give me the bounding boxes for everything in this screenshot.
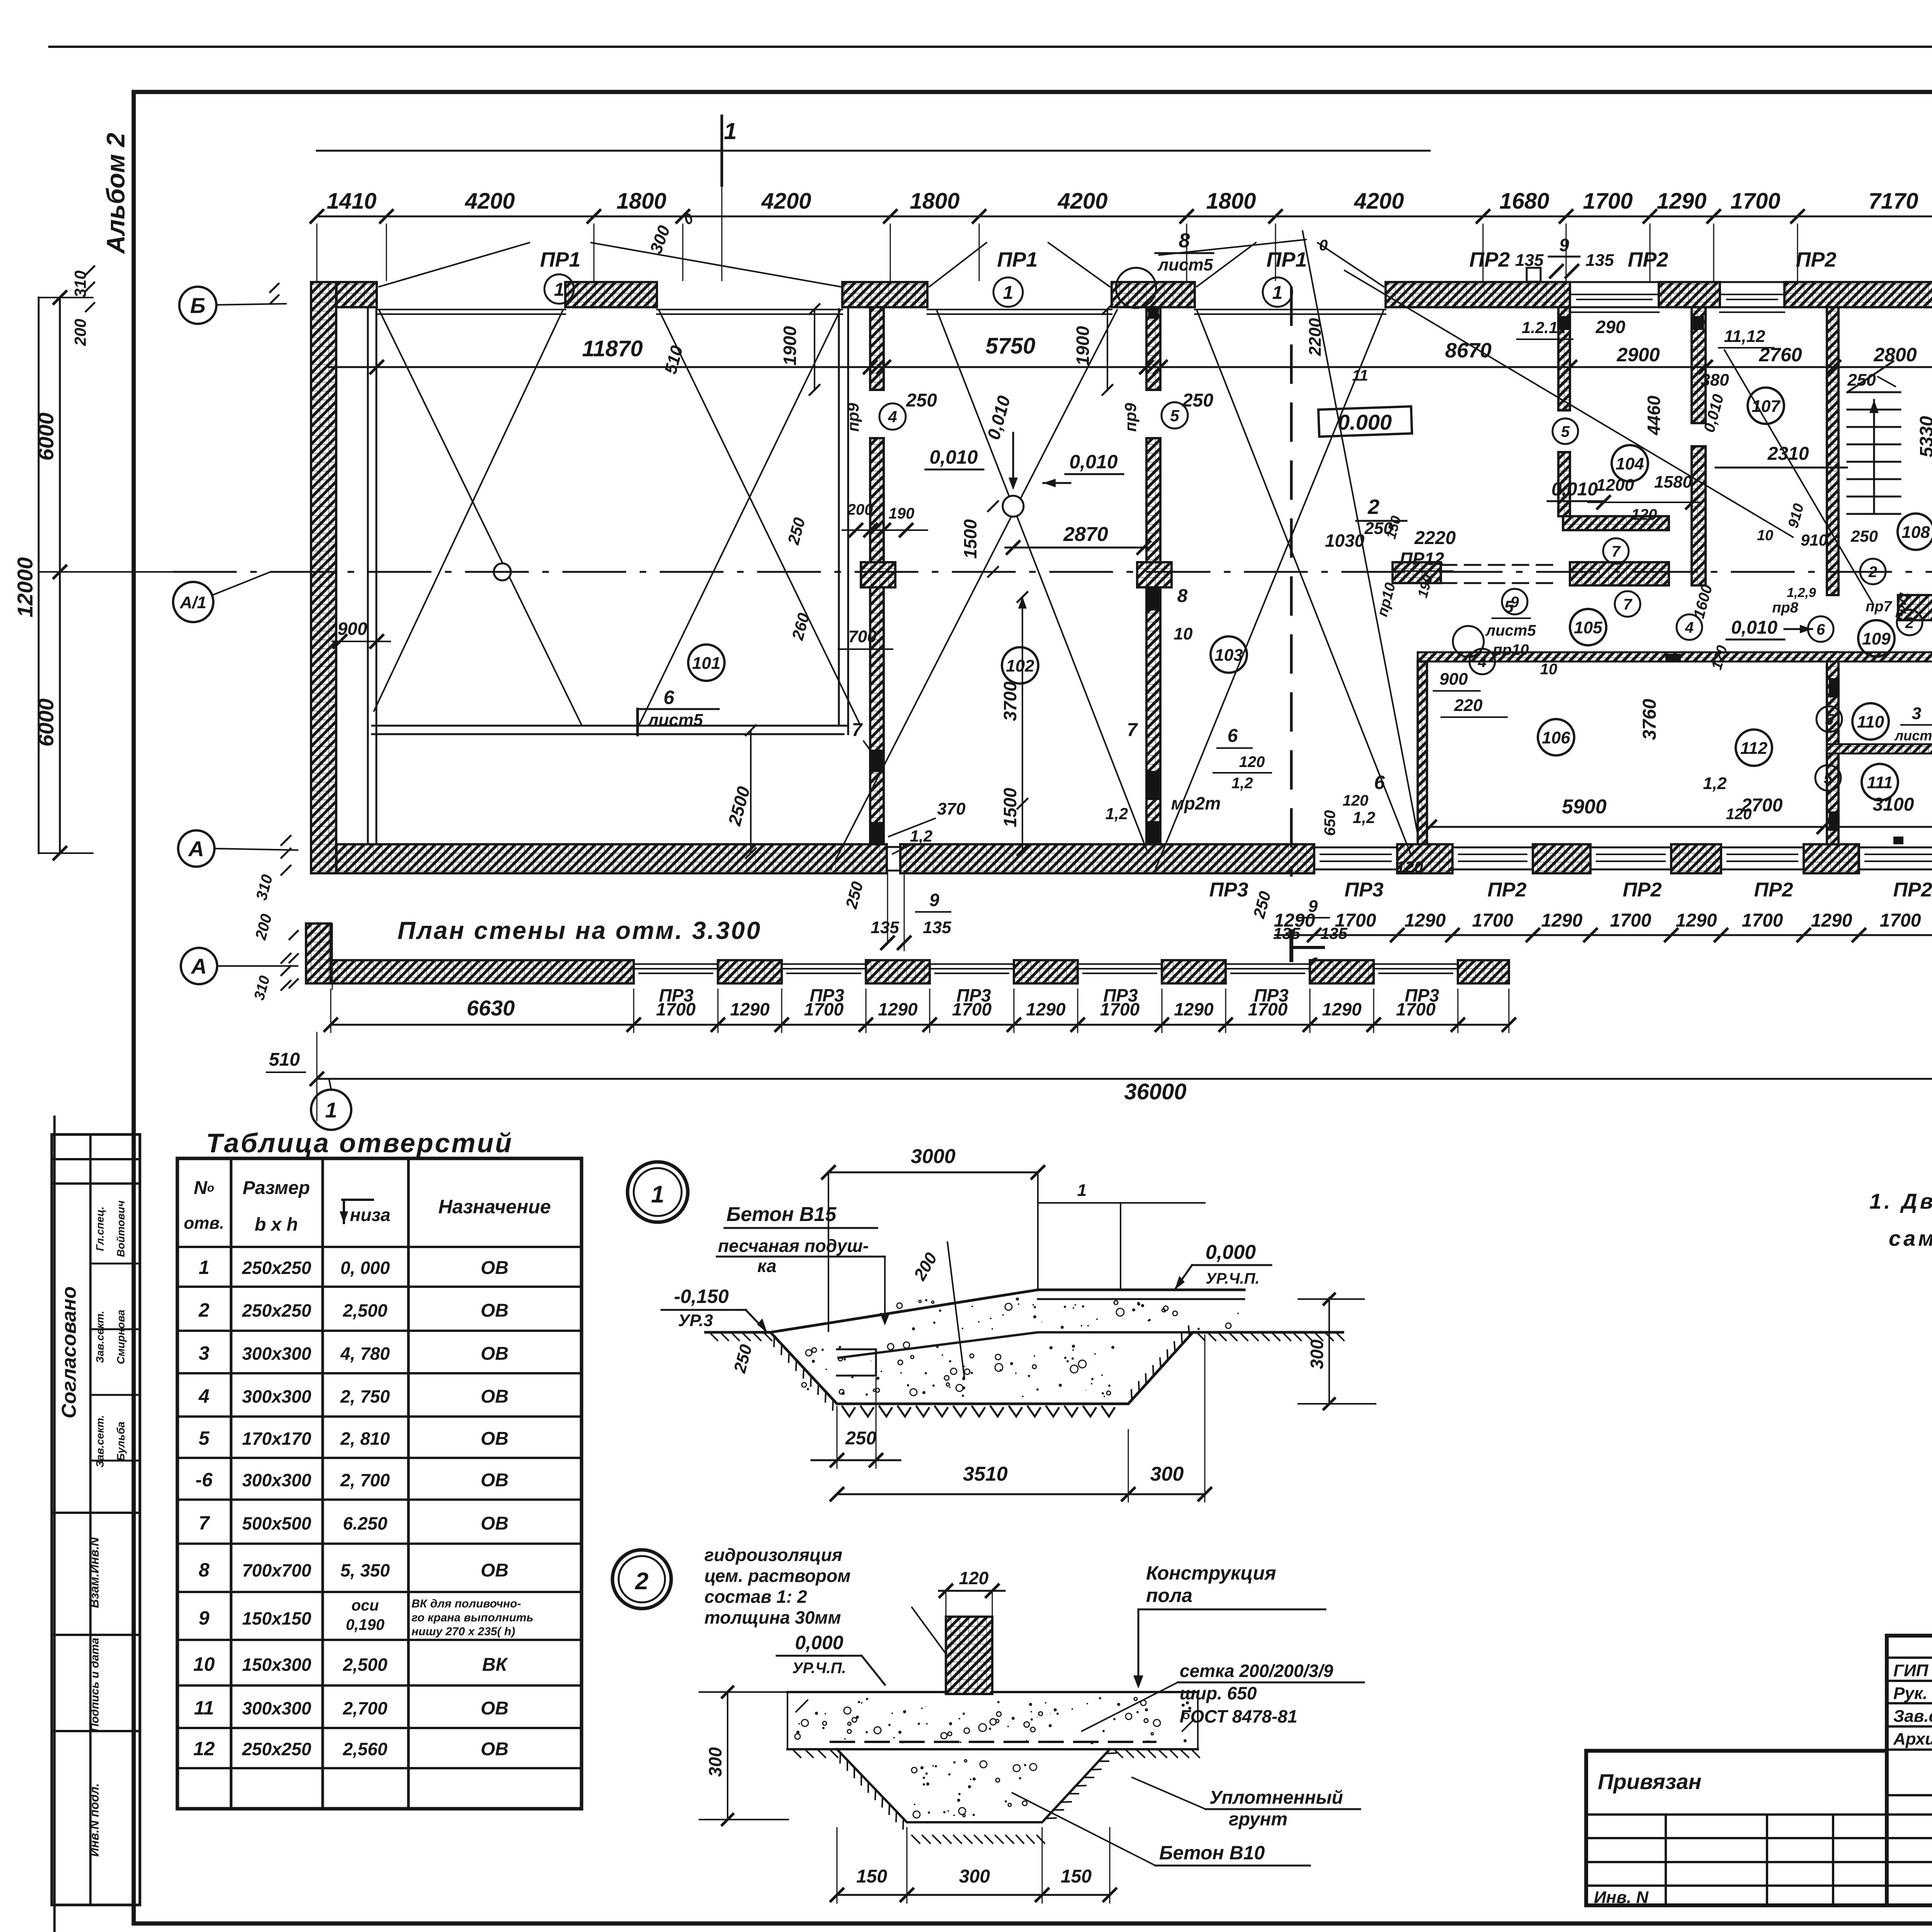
svg-text:6: 6: [1228, 726, 1238, 746]
svg-text:1: 1: [1272, 282, 1283, 303]
interior walls: [870, 307, 884, 390]
svg-text:12: 12: [193, 1738, 215, 1760]
svg-text:4, 780: 4, 780: [340, 1344, 390, 1364]
stairs: [1847, 391, 1900, 393]
svg-text:3700: 3700: [1000, 681, 1020, 721]
svg-text:36000: 36000: [1124, 1079, 1186, 1104]
svg-text:1580: 1580: [1654, 473, 1692, 492]
svg-text:1: 1: [651, 1181, 664, 1208]
svg-text:2: 2: [1868, 563, 1877, 580]
svg-text:пола: пола: [1146, 1585, 1192, 1606]
svg-text:1,2: 1,2: [1703, 774, 1727, 793]
svg-text:1290: 1290: [1811, 910, 1852, 931]
svg-text:ПР2: ПР2: [1469, 248, 1510, 271]
detail 1 circle: [628, 1162, 688, 1222]
detail 2 mesh dashed line: [831, 1741, 1155, 1743]
svg-text:Назначение: Назначение: [438, 1196, 551, 1218]
svg-text:2310: 2310: [1767, 444, 1809, 464]
svg-text:1800: 1800: [616, 189, 666, 214]
svg-text:ПР2: ПР2: [1754, 879, 1793, 901]
svg-text:250x250: 250x250: [241, 1301, 311, 1321]
svg-text:-0,150: -0,150: [674, 1286, 729, 1307]
svg-text:0,190: 0,190: [346, 1616, 384, 1633]
svg-text:9: 9: [199, 1607, 209, 1629]
svg-text:1410: 1410: [327, 189, 376, 214]
svg-text:5, 350: 5, 350: [340, 1560, 390, 1580]
svg-text:1200: 1200: [1596, 476, 1634, 495]
svg-text:сетка 200/200/3/9: сетка 200/200/3/9: [1180, 1661, 1333, 1681]
gate swing diagonals opening4: [1197, 310, 1410, 853]
svg-text:0,000: 0,000: [795, 1632, 843, 1653]
svg-text:11: 11: [194, 1697, 214, 1719]
sheet outer border: [49, 46, 1932, 48]
svg-text:пр10: пр10: [1493, 641, 1529, 658]
svg-text:ОВ: ОВ: [481, 1429, 509, 1449]
svg-text:510: 510: [269, 1049, 300, 1070]
pit bottom zigzag: [842, 1406, 1114, 1417]
svg-text:ОВ: ОВ: [481, 1560, 509, 1581]
svg-text:Бульба: Бульба: [115, 1422, 127, 1461]
svg-text:0, 000: 0, 000: [340, 1258, 390, 1278]
svg-text:290: 290: [1595, 317, 1626, 337]
detail 2 bottom dims: [837, 1894, 1110, 1896]
left signature strip: [52, 1134, 140, 1905]
svg-text:b x h: b x h: [255, 1214, 298, 1235]
svg-text:1700: 1700: [1610, 910, 1651, 931]
svg-text:ВК: ВК: [482, 1655, 509, 1675]
svg-text:2, 750: 2, 750: [340, 1386, 390, 1406]
svg-text:6: 6: [663, 687, 675, 708]
svg-text:8: 8: [1179, 230, 1190, 252]
svg-text:6630: 6630: [467, 996, 515, 1020]
svg-text:120: 120: [959, 1568, 989, 1588]
svg-text:110: 110: [1857, 713, 1884, 731]
svg-text:700: 700: [848, 627, 877, 646]
svg-text:300: 300: [1307, 1339, 1327, 1369]
svg-text:200: 200: [847, 501, 873, 518]
svg-text:3: 3: [1912, 704, 1921, 723]
svg-text:грунт: грунт: [1229, 1809, 1287, 1830]
svg-text:101: 101: [692, 654, 720, 673]
svg-text:104: 104: [1616, 454, 1644, 473]
svg-text:Войтович: Войтович: [115, 1201, 127, 1257]
svg-text:1290: 1290: [1174, 999, 1214, 1019]
svg-text:5900: 5900: [1562, 796, 1607, 818]
svg-text:2, 810: 2, 810: [340, 1429, 390, 1449]
svg-text:нишу 270 х 235( h): нишу 270 х 235( h): [412, 1625, 515, 1638]
svg-text:10: 10: [193, 1653, 215, 1675]
svg-text:пр7: пр7: [1866, 599, 1892, 615]
0.000 boxed level mark: [1318, 406, 1412, 437]
svg-text:-6: -6: [196, 1469, 213, 1490]
svg-text:1.2.11: 1.2.11: [1522, 318, 1566, 337]
svg-text:1: 1: [199, 1257, 209, 1278]
leader diagonals right part: [1303, 231, 1418, 834]
svg-text:1290: 1290: [1026, 999, 1066, 1019]
detail 1 pit shape: [706, 1332, 1343, 1404]
svg-text:1: 1: [724, 118, 736, 144]
svg-text:ОВ: ОВ: [481, 1344, 509, 1364]
svg-text:300: 300: [1150, 1463, 1184, 1485]
svg-text:3000: 3000: [911, 1145, 956, 1168]
svg-text:2: 2: [635, 1568, 648, 1595]
svg-text:120: 120: [1343, 792, 1369, 809]
svg-text:Архит.: Архит.: [1893, 1730, 1932, 1748]
svg-text:2, 700: 2, 700: [340, 1470, 390, 1490]
svg-text:1290: 1290: [878, 999, 918, 1019]
svg-text:ОВ: ОВ: [481, 1514, 509, 1534]
svg-text:250: 250: [845, 1428, 876, 1449]
svg-text:2,500: 2,500: [342, 1655, 388, 1675]
svg-text:120: 120: [1239, 753, 1265, 770]
svg-text:Бетон В15: Бетон В15: [726, 1203, 837, 1226]
svg-text:ПР1: ПР1: [540, 248, 581, 271]
svg-text:8: 8: [199, 1559, 209, 1581]
svg-text:10: 10: [1540, 661, 1558, 678]
svg-text:ОВ: ОВ: [481, 1698, 509, 1719]
svg-text:ПР2: ПР2: [1487, 879, 1526, 901]
svg-text:песчаная подуш-: песчаная подуш-: [718, 1236, 869, 1256]
svg-text:оси: оси: [351, 1597, 379, 1614]
svg-text:ПР12: ПР12: [1400, 549, 1444, 569]
svg-text:Согласовано: Согласовано: [58, 1286, 80, 1418]
svg-text:1680: 1680: [1499, 189, 1549, 214]
top dim row: section line 1: [317, 150, 1430, 152]
svg-text:ПР2: ПР2: [1622, 879, 1662, 901]
svg-text:250: 250: [1847, 371, 1876, 389]
svg-text:УР.3: УР.3: [678, 1311, 713, 1330]
svg-text:170x170: 170x170: [242, 1429, 311, 1449]
top wall window/gate sills: [377, 309, 565, 310]
svg-text:0.000: 0.000: [1338, 410, 1392, 434]
svg-text:ПР1: ПР1: [997, 248, 1038, 271]
svg-text:А: А: [190, 954, 207, 978]
svg-text:150x150: 150x150: [242, 1608, 311, 1628]
svg-text:1290: 1290: [1274, 910, 1315, 931]
svg-text:107: 107: [1752, 397, 1781, 416]
svg-text:5: 5: [1170, 406, 1179, 425]
svg-text:2870: 2870: [1063, 523, 1108, 546]
svg-text:7: 7: [1623, 596, 1633, 613]
svg-text:190: 190: [889, 505, 915, 522]
svg-text:103: 103: [1214, 646, 1243, 665]
svg-text:135: 135: [1585, 251, 1614, 270]
svg-text:1290: 1290: [1541, 910, 1583, 931]
svg-text:1,2: 1,2: [1105, 804, 1128, 823]
svg-text:0,010: 0,010: [1731, 617, 1777, 638]
svg-text:11,12: 11,12: [1724, 327, 1765, 346]
svg-text:Конструкция: Конструкция: [1146, 1562, 1276, 1584]
svg-text:Смирнова: Смирнова: [115, 1310, 127, 1364]
svg-text:5: 5: [1825, 711, 1834, 728]
svg-text:Зав.сек.: Зав.сек.: [1893, 1707, 1932, 1726]
svg-text:4: 4: [888, 408, 897, 426]
svg-text:1700: 1700: [804, 999, 844, 1019]
svg-text:УР.Ч.П.: УР.Ч.П.: [792, 1660, 846, 1677]
svg-text:8: 8: [1177, 586, 1188, 606]
svg-text:1900: 1900: [780, 326, 800, 366]
strip plan walls: [306, 923, 331, 983]
svg-text:250: 250: [1850, 527, 1878, 545]
svg-text:ПР2: ПР2: [1796, 248, 1837, 271]
svg-text:Уплотненный: Уплотненный: [1209, 1787, 1343, 1808]
svg-text:Таблица отверстий: Таблица отверстий: [206, 1128, 513, 1158]
svg-text:1,2: 1,2: [1231, 775, 1253, 792]
svg-text:1290: 1290: [1405, 910, 1446, 931]
detail 2 slab: [787, 1691, 946, 1693]
svg-text:300x300: 300x300: [242, 1470, 311, 1490]
svg-text:гидроизоляция: гидроизоляция: [704, 1545, 842, 1565]
svg-text:УР.Ч.П.: УР.Ч.П.: [1206, 1270, 1259, 1287]
svg-text:3760: 3760: [1639, 699, 1660, 740]
svg-text:ПР2: ПР2: [1893, 879, 1932, 901]
left vertical dims: [59, 298, 61, 853]
svg-text:135: 135: [871, 918, 899, 937]
svg-text:1290: 1290: [1656, 189, 1706, 214]
bottom window dim row: [1275, 934, 1932, 936]
svg-text:ГОСТ 8478-81: ГОСТ 8478-81: [1180, 1706, 1298, 1726]
interior long dim line: [329, 366, 1932, 368]
svg-text:300x300: 300x300: [242, 1344, 311, 1364]
svg-text:1700: 1700: [656, 999, 696, 1019]
svg-text:лист5: лист5: [1485, 622, 1536, 639]
plan: top wall piers (hatched): [311, 282, 377, 307]
detail 2 pit below: [837, 1749, 1110, 1822]
svg-text:ПР3: ПР3: [1344, 879, 1383, 901]
svg-text:500x500: 500x500: [242, 1514, 311, 1534]
svg-text:А: А: [188, 837, 204, 861]
svg-text:9: 9: [1559, 235, 1569, 255]
section mark 1 bottom: [1289, 931, 1293, 960]
svg-text:108: 108: [1901, 523, 1930, 542]
svg-text:Зав.сект.: Зав.сект.: [94, 1311, 106, 1363]
svg-text:ОВ: ОВ: [481, 1739, 509, 1760]
svg-text:300x300: 300x300: [242, 1386, 311, 1406]
svg-text:4200: 4200: [1057, 189, 1107, 214]
svg-text:Подпись и дата: Подпись и дата: [88, 1638, 101, 1731]
svg-text:102: 102: [1006, 656, 1034, 675]
svg-text:3100: 3100: [1873, 794, 1914, 815]
svg-text:1: 1: [554, 279, 565, 300]
svg-text:ВК для поливочно-: ВК для поливочно-: [412, 1597, 521, 1610]
svg-text:ПР2: ПР2: [1628, 248, 1668, 271]
svg-text:4200: 4200: [761, 189, 811, 214]
svg-text:200: 200: [71, 319, 89, 346]
svg-text:5: 5: [1561, 423, 1570, 440]
plan: left wall (outer leaf + inner leaf): [311, 282, 336, 873]
svg-text:300: 300: [959, 1866, 990, 1887]
svg-text:лист5: лист5: [1894, 728, 1932, 743]
strip dim row: [331, 1024, 1509, 1026]
svg-text:150: 150: [1061, 1866, 1092, 1887]
svg-text:1290: 1290: [1322, 999, 1362, 1019]
svg-text:ОВ: ОВ: [481, 1386, 509, 1407]
svg-text:1900: 1900: [1073, 326, 1093, 366]
room 101 inner lining: [372, 725, 848, 727]
svg-text:2,700: 2,700: [342, 1698, 388, 1718]
svg-text:ПР1: ПР1: [1267, 248, 1307, 271]
room number circles: [688, 645, 724, 681]
plan: bottom wall: [311, 844, 887, 873]
svg-text:самозакрывания уплотнить в: самозакрывания уплотнить в притворах.: [1889, 1226, 1932, 1250]
svg-text:1,2: 1,2: [1353, 808, 1375, 827]
svg-text:ОВ: ОВ: [481, 1301, 509, 1321]
svg-text:Взам.Инв.N: Взам.Инв.N: [87, 1537, 101, 1608]
svg-text:1700: 1700: [1248, 999, 1288, 1019]
svg-text:4200: 4200: [1354, 189, 1404, 214]
svg-text:1030: 1030: [1325, 531, 1365, 551]
svg-text:1700: 1700: [1730, 189, 1780, 214]
svg-text:0,010: 0,010: [1551, 479, 1598, 500]
svg-text:150x300: 150x300: [242, 1655, 311, 1675]
svg-text:Рук. бр.: Рук. бр.: [1893, 1684, 1932, 1703]
svg-text:4: 4: [1685, 619, 1694, 636]
svg-text:2: 2: [1367, 495, 1379, 519]
svg-text:12000: 12000: [13, 557, 37, 617]
svg-text:ГИП: ГИП: [1893, 1661, 1929, 1680]
svg-text:120: 120: [1726, 806, 1752, 823]
svg-text:5: 5: [1824, 770, 1833, 787]
svg-text:Зав.сект.: Зав.сект.: [94, 1415, 106, 1468]
svg-text:пр9: пр9: [844, 403, 862, 432]
svg-text:Размер: Размер: [243, 1178, 310, 1198]
svg-text:1: 1: [1077, 1181, 1087, 1200]
svg-text:10: 10: [1174, 624, 1193, 643]
svg-text:150: 150: [856, 1866, 887, 1887]
svg-text:1. Двери лестничной клетки: 1. Двери лестничной клетки оборудовать п…: [1869, 1189, 1932, 1213]
svg-text:1290: 1290: [730, 999, 770, 1019]
svg-text:135: 135: [1515, 251, 1544, 270]
svg-text:6.250: 6.250: [343, 1514, 388, 1534]
svg-text:4460: 4460: [1644, 395, 1664, 435]
svg-text:мр2т: мр2т: [1171, 793, 1221, 813]
svg-text:ПР3: ПР3: [1209, 879, 1248, 901]
svg-text:отв.: отв.: [184, 1214, 224, 1233]
svg-text:ОВ: ОВ: [481, 1470, 509, 1490]
main dim chain: [317, 216, 1932, 218]
svg-text:0,000: 0,000: [1206, 1241, 1256, 1264]
svg-text:900: 900: [338, 619, 367, 639]
svg-text:1,2,9: 1,2,9: [1787, 585, 1816, 600]
svg-text:910: 910: [1801, 531, 1828, 549]
svg-text:ка: ка: [757, 1256, 776, 1276]
svg-text:6000: 6000: [34, 699, 58, 747]
svg-text:5: 5: [1504, 597, 1514, 616]
svg-text:109: 109: [1862, 629, 1891, 648]
svg-text:111: 111: [1867, 773, 1893, 792]
svg-text:11870: 11870: [582, 336, 643, 361]
svg-text:Гл.спец.: Гл.спец.: [94, 1206, 106, 1251]
A/1 axis dash-dot line: [174, 571, 1932, 573]
svg-text:700x700: 700x700: [242, 1560, 311, 1580]
svg-text:6: 6: [1816, 621, 1825, 638]
svg-text:лист5: лист5: [647, 711, 703, 730]
svg-text:лист5: лист5: [1157, 255, 1213, 274]
svg-text:4: 4: [1478, 653, 1486, 670]
svg-text:А/1: А/1: [180, 593, 206, 612]
svg-text:Альбом 2: Альбом 2: [101, 133, 130, 254]
svg-text:1,2: 1,2: [910, 827, 932, 845]
svg-text:380: 380: [1701, 371, 1729, 389]
svg-text:10: 10: [1757, 527, 1773, 544]
svg-text:состав 1: 2: состав 1: 2: [704, 1587, 807, 1607]
svg-text:1800: 1800: [1206, 189, 1256, 214]
svg-text:1700: 1700: [1472, 910, 1514, 931]
svg-text:7: 7: [1127, 720, 1138, 740]
detail 1 right dim 300: [1328, 1298, 1330, 1404]
svg-text:ОВ: ОВ: [481, 1258, 509, 1278]
svg-text:7: 7: [852, 720, 863, 740]
svg-text:6000: 6000: [34, 413, 58, 461]
svg-text:1700: 1700: [1583, 189, 1633, 214]
svg-text:1500: 1500: [960, 519, 980, 559]
svg-text:2220: 2220: [1414, 528, 1456, 548]
title block: [1887, 1636, 1932, 1905]
svg-text:1: 1: [325, 1098, 337, 1122]
svg-text:220: 220: [1454, 696, 1483, 715]
svg-text:250: 250: [1182, 390, 1213, 411]
svg-text:1700: 1700: [1742, 910, 1783, 931]
svg-text:11: 11: [1352, 367, 1368, 384]
svg-text:низа: низа: [350, 1205, 391, 1225]
svg-text:5750: 5750: [985, 333, 1035, 359]
svg-text:250: 250: [906, 390, 937, 411]
svg-text:2800: 2800: [1873, 344, 1917, 366]
svg-text:3510: 3510: [963, 1463, 1008, 1485]
svg-text:1800: 1800: [910, 189, 959, 214]
svg-text:900: 900: [1439, 670, 1468, 689]
svg-text:4200: 4200: [464, 189, 515, 214]
circled opening type numbers: [544, 274, 574, 304]
axis circles left: [179, 287, 216, 324]
svg-text:1: 1: [1003, 282, 1014, 303]
svg-text:1700: 1700: [1335, 910, 1376, 931]
svg-text:Инв.N подл.: Инв.N подл.: [87, 1783, 101, 1857]
strip plan axis circle A: [181, 948, 217, 984]
svg-text:300x300: 300x300: [242, 1698, 311, 1718]
svg-text:1290: 1290: [1676, 910, 1717, 931]
svg-text:пр8: пр8: [1772, 600, 1798, 616]
detail 2 column: [946, 1617, 992, 1694]
svg-text:шир. 650: шир. 650: [1180, 1683, 1257, 1703]
svg-text:2,560: 2,560: [342, 1739, 388, 1759]
svg-text:112: 112: [1740, 739, 1768, 758]
gate swing diagonals opening2: [659, 310, 861, 726]
svg-text:Б: Б: [190, 293, 206, 318]
svg-text:1700: 1700: [952, 999, 992, 1019]
svg-text:цем. раствором: цем. раствором: [704, 1566, 850, 1586]
svg-text:План стены на отм. 3.300: План стены на отм. 3.300: [398, 917, 762, 944]
svg-text:250x250: 250x250: [241, 1739, 311, 1759]
door leaf circles (uzly): [1553, 418, 1578, 444]
svg-text:Бетон В10: Бетон В10: [1159, 1842, 1265, 1864]
svg-text:1700: 1700: [1100, 999, 1140, 1019]
svg-text:1500: 1500: [1000, 787, 1020, 827]
svg-text:650: 650: [1321, 810, 1338, 836]
gate swing diagonals opening3: [937, 310, 1148, 853]
svg-text:5: 5: [199, 1427, 210, 1449]
svg-text:Привязан: Привязан: [1598, 1769, 1701, 1794]
gate swing diagonals opening1: [379, 310, 582, 726]
svg-text:7: 7: [199, 1512, 210, 1534]
svg-text:го крана выполнить: го крана выполнить: [412, 1611, 533, 1624]
svg-text:8670: 8670: [1445, 339, 1492, 362]
svg-text:120: 120: [1631, 506, 1657, 523]
svg-text:1700: 1700: [1396, 999, 1436, 1019]
svg-text:3: 3: [199, 1342, 209, 1364]
svg-text:2900: 2900: [1616, 344, 1660, 366]
svg-text:135: 135: [923, 918, 951, 937]
